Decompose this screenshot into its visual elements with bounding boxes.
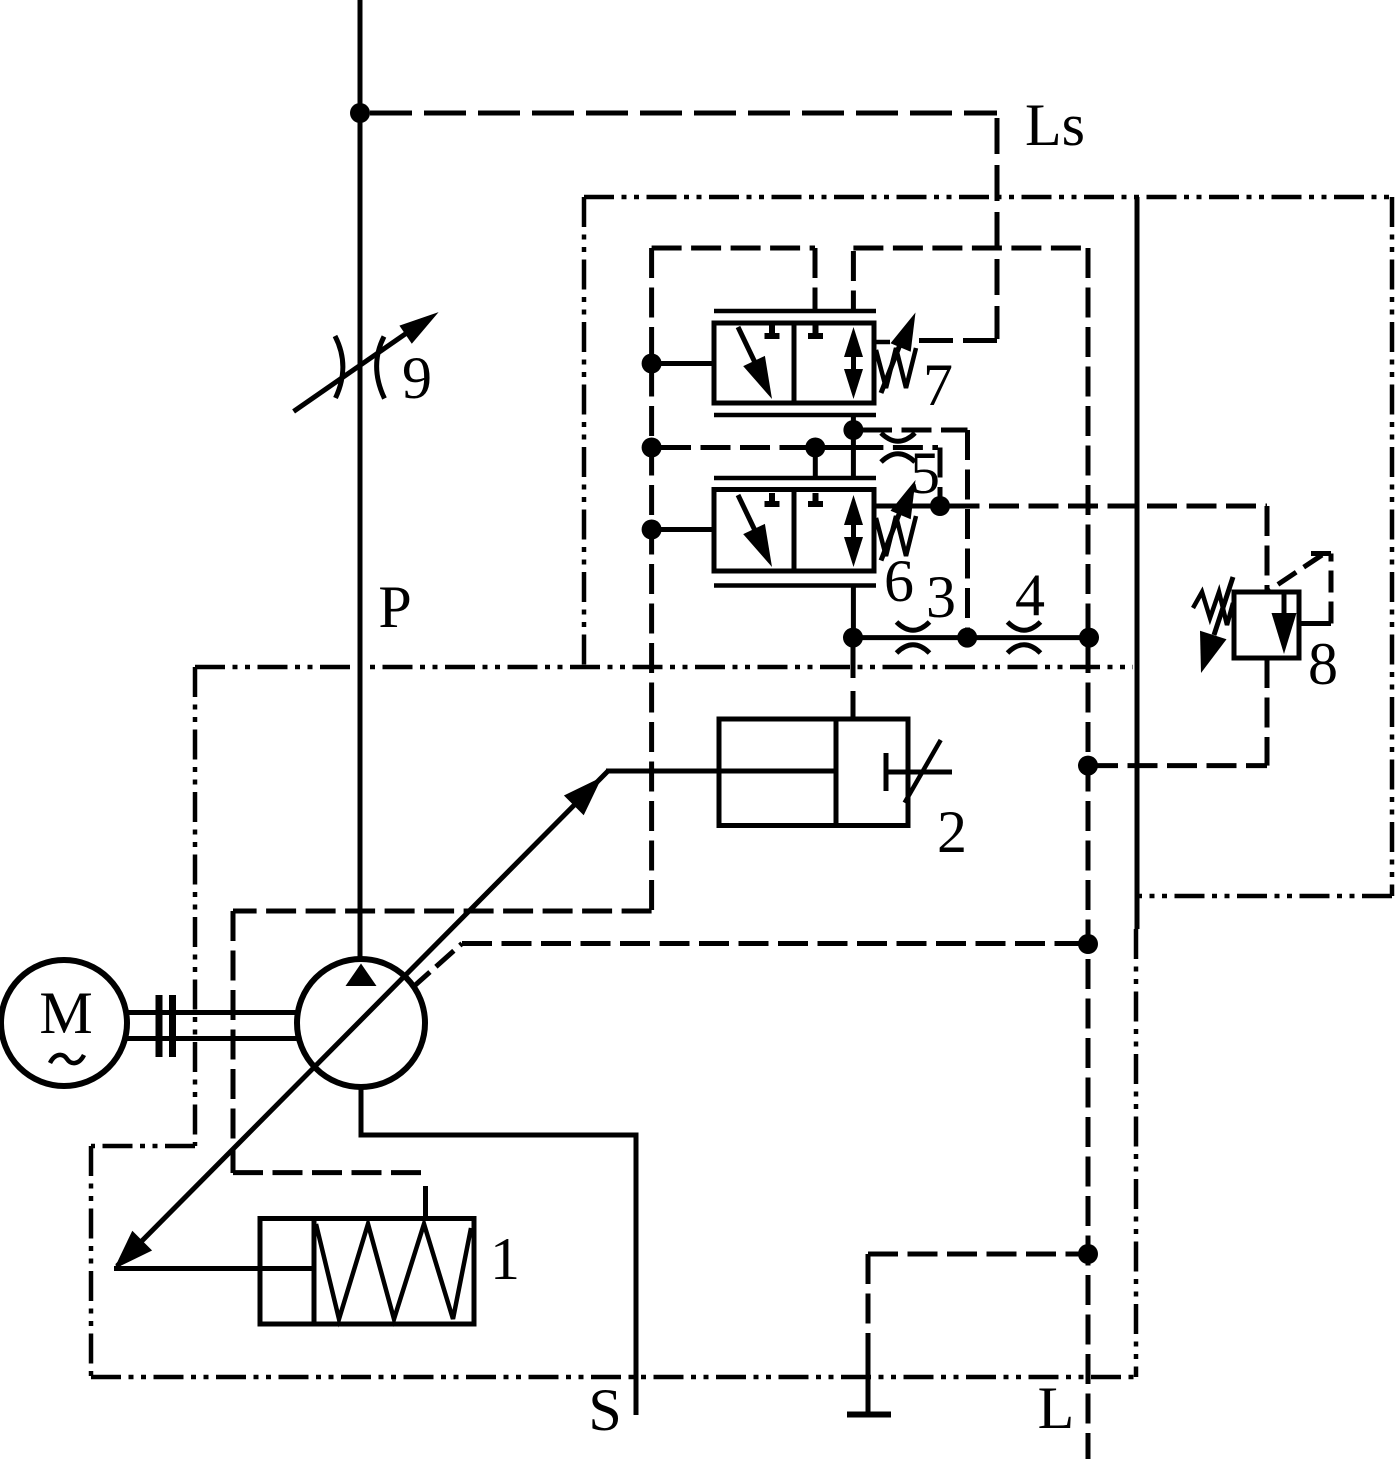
valve U7 right cell double arrow bbox=[844, 327, 863, 399]
valve U6 left cell arrow bbox=[738, 495, 772, 567]
wire stem to cylinder2 lower bbox=[851, 691, 856, 719]
wire solid row B to stem bbox=[806, 445, 853, 450]
svg-text:6: 6 bbox=[884, 548, 914, 614]
node drain-case line bbox=[1078, 934, 1098, 954]
wire valve U6 left top stem bbox=[813, 448, 818, 478]
orifice O5 arcs bbox=[881, 433, 915, 462]
orifice O4 arcs bbox=[1008, 622, 1041, 653]
wire Ls pilot dashed down bbox=[995, 118, 1000, 339]
svg-text:9: 9 bbox=[402, 345, 432, 411]
wire valve U6 bottom stem bbox=[851, 587, 856, 638]
orifice O9 arcs bbox=[335, 336, 385, 399]
svg-text:M: M bbox=[39, 980, 92, 1046]
wire pilot dashed to component 1 bbox=[233, 1170, 427, 1175]
svg-text:Ls: Ls bbox=[1025, 92, 1085, 158]
wire pump box dashed left vertical bbox=[231, 911, 236, 1173]
svg-text:8: 8 bbox=[1308, 631, 1338, 697]
wire component 1 rod bbox=[114, 1266, 314, 1271]
adjuster cylinder C2 bbox=[886, 740, 952, 803]
wire Ls pilot dashed top bbox=[370, 111, 997, 116]
cylinder C2 body bbox=[719, 719, 908, 826]
spring component 1 bbox=[316, 1224, 471, 1319]
node row B pilot bbox=[805, 438, 825, 458]
shaft lines bbox=[127, 1013, 297, 1039]
wire relief U8 return dashed left bbox=[1088, 763, 1267, 768]
relief valve U8 body bbox=[1234, 592, 1299, 658]
wire control dashed box top-inner bbox=[853, 246, 1088, 251]
wire pilot dashed down to orifice row bbox=[965, 430, 970, 633]
valve U6 right cell plug T bbox=[808, 493, 823, 504]
svg-text:4: 4 bbox=[1015, 562, 1045, 628]
wire relief U8 pilot stub bbox=[1299, 621, 1331, 626]
enclosure right dash-dot lower vertical bbox=[1134, 929, 1139, 1377]
pump flow triangle bbox=[346, 964, 377, 987]
node drain-valve8 return bbox=[1078, 756, 1098, 776]
node orifice row left bbox=[843, 628, 863, 648]
wire valve U6 output solid bbox=[876, 504, 940, 509]
wire relief U8 pilot dashed up bbox=[1329, 554, 1334, 624]
tank symbol bbox=[847, 1360, 891, 1415]
svg-text:5: 5 bbox=[910, 440, 940, 506]
wire P line vertical bbox=[358, 0, 363, 959]
valve U7 body bbox=[714, 311, 876, 415]
wire cylinder C2 rod bbox=[610, 769, 836, 774]
wire bottom box dashed top bbox=[868, 1252, 1088, 1257]
arrow valve U7 adjustable bbox=[881, 313, 916, 394]
valve U6 body bbox=[714, 478, 876, 586]
wire pilot dashed from node to right bbox=[862, 428, 968, 433]
wire control dashed left vertical bbox=[649, 248, 654, 911]
enclosure pump dash-dot left lower bbox=[89, 1146, 94, 1377]
enclosure manifold dash-dot bottom-right bbox=[1137, 894, 1392, 899]
wire valve7-valve6 stem bbox=[851, 417, 856, 477]
orifice O3 arcs bbox=[897, 622, 930, 653]
wire relief U8 return dashed down bbox=[1265, 658, 1270, 766]
enclosure pump dash-dot step bbox=[91, 1144, 195, 1149]
wire drain dashed right vertical L bbox=[1086, 248, 1091, 1459]
valve U6 left cell plug T bbox=[765, 493, 780, 504]
orifice O5 line dashed bbox=[853, 445, 938, 450]
svg-text:7: 7 bbox=[923, 352, 953, 418]
node drain-orifice row bbox=[1079, 628, 1099, 648]
wire valve U7 left pilot bbox=[652, 361, 712, 366]
arrow orifice O9 adjustable bbox=[294, 312, 439, 411]
motor tilde bbox=[50, 1055, 84, 1063]
wire pilot dashed stem valve7 right bbox=[851, 251, 856, 309]
wire control dashed box top-left bbox=[652, 246, 815, 251]
enclosure manifold dash-dot middle horizontal bbox=[195, 665, 1133, 670]
wire tank line T solid vertical bbox=[1135, 197, 1140, 929]
wire control dashed to pump box bbox=[233, 909, 652, 914]
valve U7 left cell arrow bbox=[738, 327, 772, 399]
wire valve U7 spring stub bbox=[876, 340, 890, 345]
wire valve U6 output dashed to valve8 bbox=[950, 504, 1268, 509]
enclosure manifold dash-dot left upper bbox=[582, 197, 587, 667]
node junction P-Ls bbox=[350, 103, 370, 123]
wire Ls pilot dashed to valve 7 spring bbox=[916, 338, 997, 343]
enclosure bottom dash-dot bbox=[91, 1375, 1136, 1380]
wire pump suction S path bbox=[361, 1087, 636, 1415]
valve U7 right cell plug T bbox=[808, 325, 823, 336]
wire valve U6 left pilot bbox=[652, 527, 712, 532]
svg-text:P: P bbox=[378, 574, 411, 640]
wire dashed orifice5 to valve6 out bbox=[938, 448, 943, 498]
svg-text:3: 3 bbox=[926, 564, 956, 630]
spring valve U6 bbox=[876, 516, 916, 556]
shaft coupling ticks bbox=[159, 995, 173, 1057]
node on control line A bbox=[642, 354, 662, 374]
svg-text:S: S bbox=[588, 1377, 621, 1443]
wire cylinder C2 rod left bbox=[606, 769, 719, 774]
node orifice row middle bbox=[957, 628, 977, 648]
relief valve U8 pilot dashed down bbox=[1265, 506, 1270, 592]
wire pilot dashed row B bbox=[661, 445, 806, 450]
wire case drain dashed diagonal bbox=[412, 944, 462, 989]
wire stub to component 1 top bbox=[423, 1186, 428, 1219]
enclosure manifold dash-dot top bbox=[584, 195, 1392, 200]
valve U6 right cell double arrow bbox=[844, 495, 863, 567]
svg-text:L: L bbox=[1038, 1375, 1075, 1441]
component 1 body bbox=[260, 1219, 474, 1325]
enclosure pump dash-dot left vertical bbox=[193, 667, 198, 1146]
node valve U6 output bbox=[930, 496, 950, 516]
arrow valve U6 adjustable bbox=[881, 480, 916, 561]
wire stem to cylinder2 upper bbox=[851, 638, 856, 678]
pump circle bbox=[297, 959, 425, 1087]
spring valve U7 bbox=[876, 348, 916, 388]
relief valve U8 arrow bbox=[1272, 592, 1297, 654]
enclosure manifold dash-dot right bbox=[1390, 197, 1395, 896]
valve U7 left cell plug T bbox=[765, 325, 780, 336]
wire pilot dashed stem valve7 left bbox=[813, 248, 818, 309]
wire orifice row solid bbox=[853, 635, 1089, 640]
arrow relief U8 adjustable bbox=[1200, 577, 1233, 673]
svg-text:2: 2 bbox=[937, 799, 967, 865]
wire bottom box dashed left bbox=[866, 1254, 871, 1360]
node on control line C bbox=[642, 520, 662, 540]
svg-text:1: 1 bbox=[490, 1226, 520, 1292]
motor M circle bbox=[1, 960, 127, 1086]
wire relief U8 pilot dashed diagonal bbox=[1311, 551, 1331, 556]
spring relief U8 bbox=[1193, 592, 1233, 625]
node on control line B bbox=[642, 438, 662, 458]
node valve7 bottom bbox=[843, 420, 863, 440]
wire case drain dashed long bbox=[462, 941, 1088, 946]
arrow swashplate long diagonal bbox=[114, 771, 608, 1269]
node drain-bottom box bbox=[1078, 1244, 1098, 1264]
